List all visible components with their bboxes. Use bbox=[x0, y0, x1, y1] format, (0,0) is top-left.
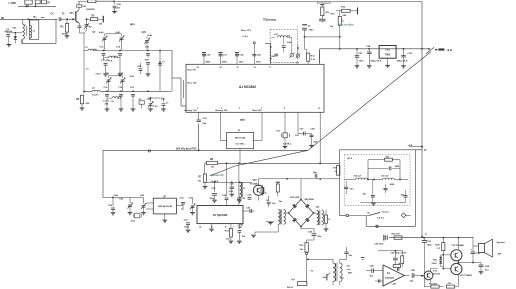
node osc input bbox=[241, 30, 255, 54]
svg-text:ГПД вывод: ГПД вывод bbox=[263, 20, 276, 22]
transistor VT9 bbox=[443, 262, 472, 287]
wire D1 loop bbox=[339, 150, 415, 228]
crystal Q1 bbox=[277, 112, 292, 148]
svg-text:+2,4В: +2,4В bbox=[237, 223, 243, 226]
op-amp A3 bbox=[383, 265, 410, 286]
ground D1 bbox=[360, 203, 406, 206]
svg-text:100н: 100н bbox=[309, 30, 315, 32]
svg-text:С17 470: С17 470 bbox=[101, 59, 110, 62]
transistor VT1 KP327 bbox=[70, 1, 87, 23]
wire oscillator bias bbox=[205, 181, 252, 183]
capacitor C53 bbox=[355, 49, 364, 68]
svg-text:А1 МС3362: А1 МС3362 bbox=[239, 85, 256, 89]
svg-text:Вых. ОГ1: Вых. ОГ1 bbox=[241, 30, 252, 32]
resistor R23 bbox=[424, 283, 443, 288]
capacitor C62 bbox=[422, 238, 432, 288]
svg-text:200µ: 200µ bbox=[210, 198, 215, 200]
wire rail to A1 power pin bbox=[319, 49, 321, 63]
capacitor C17 bbox=[101, 59, 110, 77]
svg-text:VD10: VD10 bbox=[432, 263, 438, 265]
wire row1 to row2 link bbox=[158, 51, 165, 92]
svg-text:10,7 МГц: 10,7 МГц bbox=[235, 144, 245, 146]
wire antenna top bbox=[18, 4, 56, 7]
svg-text:С1Б: С1Б bbox=[117, 4, 122, 6]
capacitor 10n D1 bbox=[344, 181, 354, 194]
resistor X2 bbox=[139, 99, 145, 108]
svg-text:Н100ПМ: Н100ПМ bbox=[86, 9, 95, 11]
resistor R12 and C40 bbox=[225, 223, 246, 243]
svg-text:С5Б: С5Б bbox=[411, 270, 416, 272]
svg-text:560µ×16 В: 560µ×16 В bbox=[371, 59, 382, 62]
capacitor C6 emitter bbox=[76, 22, 89, 92]
wire diagonal to power switch bbox=[308, 52, 431, 151]
regulator VR1 7805 bbox=[379, 46, 396, 68]
svg-text:Настройка: Настройка bbox=[339, 23, 354, 27]
svg-text:+9 В: +9 В bbox=[446, 48, 452, 52]
capacitor C19 bbox=[118, 87, 123, 111]
resistor R19 bbox=[324, 210, 332, 231]
capacitor С38 bbox=[235, 53, 244, 65]
labels C17b bbox=[103, 100, 110, 105]
capacitor C46 trimmer column bbox=[103, 194, 133, 215]
wire filter to A1 bbox=[172, 51, 186, 107]
svg-text:220µ×16 В: 220µ×16 В bbox=[397, 59, 408, 62]
svg-text:1мкГн: 1мкГн bbox=[92, 94, 99, 96]
label tuning green bbox=[339, 23, 354, 27]
capacitor C63 bbox=[471, 237, 481, 264]
capacitor C54 bbox=[366, 45, 382, 68]
svg-text:25н: 25н bbox=[271, 56, 275, 58]
capacitor C58b input bbox=[375, 235, 388, 246]
svg-text:Вывод 100: Вывод 100 bbox=[216, 110, 229, 112]
svg-text:С5Б: С5Б bbox=[370, 266, 375, 268]
capacitor C41 bbox=[248, 193, 253, 199]
trimmer C30 bbox=[189, 197, 196, 215]
capacitor C33 bbox=[197, 112, 208, 125]
wire A3 inverting input bbox=[375, 279, 383, 282]
wire antenna input bbox=[0, 18, 57, 20]
inductor L row2 bbox=[107, 97, 121, 103]
ground near ring bbox=[266, 222, 274, 225]
inductor L1 bbox=[23, 19, 27, 43]
wire bandfilter row2 bbox=[100, 90, 168, 92]
wire bottom rail bbox=[389, 237, 473, 239]
label node 2 bbox=[425, 233, 427, 236]
inductor 100uH right bbox=[367, 176, 408, 181]
resistor R24 bbox=[436, 238, 445, 270]
diodes VD9 VD10 bbox=[432, 255, 444, 267]
resistor R3 top bbox=[79, 0, 115, 11]
resistor R20 bbox=[261, 185, 267, 196]
capacitor C45b bbox=[108, 197, 115, 216]
svg-text:КТ3126: КТ3126 bbox=[433, 273, 441, 275]
svg-text:R23 820: R23 820 bbox=[429, 283, 438, 285]
capacitor C34 C35 A2 inputs bbox=[222, 163, 246, 205]
capacitor C32b bbox=[184, 220, 191, 233]
svg-text:КТ342Б: КТ342Б bbox=[250, 183, 258, 186]
resistor R25 bbox=[447, 282, 459, 288]
svg-text:1к: 1к bbox=[265, 193, 267, 195]
svg-text:Приём Rx: Приём Rx bbox=[211, 173, 225, 177]
svg-text:Вывод 1,5к: Вывод 1,5к bbox=[185, 110, 198, 112]
svg-text:1,4 кГц: 1,4 кГц bbox=[377, 217, 385, 220]
label L-CM6 bbox=[9, 2, 17, 5]
svg-text:7805: 7805 bbox=[385, 53, 391, 56]
label dpo bbox=[130, 23, 135, 26]
wire +9V horizontal rail bbox=[320, 48, 430, 50]
crystal Q2 500k bbox=[131, 213, 141, 222]
trimmer C8 bbox=[105, 31, 125, 50]
box D1 dashed bbox=[344, 154, 410, 205]
inductor L5 bbox=[237, 182, 246, 202]
capacitor 2600 bbox=[384, 184, 396, 193]
trimmer C28 bbox=[147, 97, 161, 111]
capacitor C57 bbox=[397, 49, 414, 68]
resistor R1 bbox=[61, 19, 70, 38]
svg-text:500µ: 500µ bbox=[427, 245, 432, 247]
resistor R4 bbox=[76, 87, 100, 111]
wire C33 drop bbox=[198, 124, 200, 152]
svg-text:Д1.4: Д1.4 bbox=[348, 157, 353, 160]
trimmer C13 bbox=[109, 76, 126, 92]
svg-text:4-40: 4-40 bbox=[99, 31, 104, 34]
svg-text:А1 вывод 23: А1 вывод 23 bbox=[317, 1, 331, 4]
transistor VT4 bbox=[422, 268, 441, 283]
filter Z1 FP1P bbox=[220, 112, 262, 163]
capacitor 3900 bbox=[368, 166, 400, 170]
svg-text:400н: 400н bbox=[222, 61, 228, 64]
svg-text:5 кГц: 5 кГц bbox=[243, 36, 249, 38]
label GPD bbox=[263, 20, 276, 22]
svg-text:ДБ: ДБ bbox=[26, 5, 30, 8]
svg-text:VR1: VR1 bbox=[385, 48, 390, 51]
resistor R13 with Tbar bbox=[276, 182, 280, 196]
label KD503A bbox=[5, 30, 13, 33]
trimmer R2 bbox=[84, 18, 93, 33]
svg-text:Р-50: Р-50 bbox=[153, 106, 158, 108]
switch SA1 power bbox=[426, 47, 452, 53]
label RX green bbox=[211, 173, 225, 177]
inductor 100uH left bbox=[344, 176, 374, 180]
capacitor C55 to A3 bbox=[366, 266, 383, 278]
capacitor C1 C3 top bbox=[35, 0, 50, 4]
svg-text:3,4 кГц: 3,4 кГц bbox=[382, 211, 390, 214]
svg-text:+6В: +6В bbox=[392, 284, 396, 286]
trimmer C48e before EMF bbox=[130, 194, 146, 215]
svg-text:100н: 100н bbox=[359, 60, 365, 62]
svg-text:С20: С20 bbox=[142, 32, 147, 34]
speaker BA1 bbox=[473, 239, 505, 257]
diode VD1 bbox=[12, 28, 17, 44]
svg-text:Вых 100: Вых 100 bbox=[188, 83, 198, 85]
svg-text:С58 100µ ×10 В: С58 100µ ×10 В bbox=[391, 252, 407, 255]
capacitor on detector line bbox=[313, 171, 317, 179]
svg-text:1000: 1000 bbox=[184, 227, 190, 229]
capacitor C56 tuning filter bbox=[302, 24, 340, 49]
svg-text:VT8 ГТ404Б: VT8 ГТ404Б bbox=[451, 244, 464, 247]
svg-text:*120: *120 bbox=[119, 198, 124, 200]
resistor R14 bbox=[317, 1, 331, 22]
wire left IF drop bbox=[102, 150, 104, 197]
svg-text:100н: 100н bbox=[239, 62, 245, 64]
op-amp U A1 MC3362 bbox=[186, 64, 324, 112]
capacitor C50 bbox=[344, 247, 352, 259]
svg-text:2-НЧ: 2-НЧ bbox=[96, 74, 102, 76]
capacitor C43 base bbox=[243, 206, 255, 213]
wire D1 top rail bbox=[339, 145, 427, 152]
inductor L3 bbox=[84, 47, 100, 51]
transformer Tr2 bbox=[316, 206, 324, 225]
wire IF output run bbox=[103, 149, 308, 151]
jack XS1 bottom bbox=[287, 279, 307, 289]
svg-text:L-СМ6: L-СМ6 bbox=[9, 2, 17, 5]
capacitor C14 bbox=[116, 45, 122, 76]
transistor VT bottom bbox=[323, 273, 331, 281]
svg-text:4-40: 4-40 bbox=[148, 34, 153, 37]
resistor R11 bbox=[306, 49, 315, 64]
capacitor 15n D1 bbox=[401, 190, 408, 203]
resistor R5 bbox=[87, 15, 104, 25]
filter EMF bbox=[146, 196, 176, 223]
wire input tap bbox=[7, 32, 23, 34]
wire top supply rail bbox=[114, 1, 422, 3]
resistor R22 bbox=[392, 233, 403, 239]
svg-text:Вых 500: Вых 500 bbox=[253, 110, 263, 112]
wire right +9V vertical bbox=[421, 2, 423, 238]
svg-text:4-50: 4-50 bbox=[130, 75, 135, 78]
labels A1 pins bbox=[185, 67, 322, 112]
svg-text:10н: 10н bbox=[272, 203, 276, 205]
label VCH arrow bbox=[34, 17, 45, 19]
wire A1 pin17 feed bbox=[265, 44, 272, 65]
svg-text:R22 100: R22 100 bbox=[392, 233, 401, 235]
wire output node bbox=[459, 262, 474, 264]
capacitor C26b bbox=[137, 63, 142, 74]
inductor L2 with shield bbox=[26, 19, 39, 39]
svg-text:К140УД1Б: К140УД1Б bbox=[385, 276, 395, 279]
capacitor C24 bbox=[176, 196, 185, 211]
oscillator tank L10 dashed box bbox=[270, 30, 298, 63]
ground A2 pin bbox=[209, 224, 214, 232]
capacitor C37b bbox=[266, 196, 277, 207]
svg-text:КДС523В: КДС523В bbox=[305, 199, 315, 201]
wire bandfilter row1 bbox=[100, 50, 172, 52]
capacitor 30k D1 bbox=[363, 180, 375, 203]
resistor top corner bbox=[25, 0, 32, 8]
svg-text:+ С57: + С57 bbox=[407, 53, 414, 55]
label IF out bbox=[176, 147, 197, 150]
varicap VD4 bbox=[296, 44, 301, 65]
capacitor С36 bbox=[202, 53, 211, 65]
svg-text:ФП1П-049: ФП1П-049 bbox=[235, 137, 246, 140]
capacitor C58 bbox=[378, 250, 406, 265]
transformer Tr1 bbox=[251, 201, 285, 238]
resistor R26 bbox=[401, 251, 404, 267]
labels row2 trimmers bbox=[96, 74, 135, 79]
resistor R27 feedback bbox=[393, 263, 401, 271]
capacitor C2 with ground bbox=[6, 29, 11, 47]
inductor L row1 bbox=[104, 56, 121, 62]
node IF test point bbox=[148, 150, 150, 152]
svg-text:Вых ПЧ: Вых ПЧ bbox=[188, 70, 197, 72]
capacitor C16f bbox=[104, 87, 110, 111]
transistor VT2 bbox=[250, 180, 264, 201]
svg-text:С2Б: С2Б bbox=[137, 66, 142, 68]
svg-text:2600: 2600 bbox=[390, 184, 396, 186]
svg-text:дпо: дпо bbox=[130, 23, 135, 26]
svg-text:Speaker: Speaker bbox=[497, 242, 506, 244]
capacitor С37 bbox=[218, 53, 227, 65]
capacitor C38m bbox=[210, 182, 217, 202]
ground small mid bbox=[361, 258, 364, 260]
wire row2 out bbox=[168, 78, 172, 91]
svg-text:100 мкГ: 100 мкГ bbox=[354, 176, 363, 178]
svg-text:VD5-VD8: VD5-VD8 bbox=[290, 197, 300, 199]
switch S2 bandwidth bbox=[346, 211, 411, 220]
capacitor C10 bbox=[100, 46, 106, 60]
svg-text:3900: 3900 bbox=[395, 166, 401, 168]
svg-text:А2 ТДА1083: А2 ТДА1083 bbox=[213, 214, 228, 217]
capacitor C21 bbox=[130, 87, 135, 111]
resistor R16 bbox=[336, 7, 358, 18]
svg-text:С58 100к: С58 100к bbox=[375, 243, 385, 245]
op-amp U A2 bbox=[197, 206, 243, 229]
resistor R8 bbox=[205, 159, 218, 174]
wire VT2 collector bbox=[259, 178, 340, 186]
resistor R17 bbox=[333, 166, 340, 176]
wire detector feed bbox=[218, 162, 339, 164]
svg-text:С17 3: С17 3 bbox=[103, 100, 110, 102]
capacitor C4 bbox=[51, 13, 76, 22]
svg-text:С.Л: С.Л bbox=[437, 248, 441, 250]
trimmer C7 bbox=[93, 31, 108, 50]
svg-text:VT9 ГТ402Б: VT9 ГТ402Б bbox=[460, 274, 473, 277]
svg-text:ВР: ВР bbox=[498, 253, 502, 255]
capacitor C31 bbox=[160, 98, 169, 111]
capacitor C48b bbox=[309, 128, 318, 148]
svg-text:КД503А: КД503А bbox=[5, 30, 13, 33]
svg-text:100 мкГ: 100 мкГ bbox=[381, 176, 390, 178]
svg-text:VT1: VT1 bbox=[70, 13, 75, 15]
label antenna bbox=[1, 18, 5, 20]
transformer T1 bottom bbox=[307, 258, 353, 285]
svg-text:400н: 400н bbox=[206, 61, 212, 64]
capacitor C64 bbox=[473, 263, 490, 275]
trimmer C9 bbox=[106, 76, 111, 91]
capacitor C39 electrolytic bbox=[229, 182, 235, 196]
svg-text:100н: 100н bbox=[256, 62, 262, 64]
capacitor C23 C26 bbox=[145, 46, 150, 76]
wire A1 pin10 drop bbox=[319, 112, 321, 163]
wire diagonal RX control bbox=[210, 150, 308, 176]
svg-text:470М: 470М bbox=[62, 33, 68, 36]
svg-text:5,5 МГц: 5,5 МГц bbox=[283, 143, 292, 145]
svg-text:С4Б: С4Б bbox=[114, 194, 119, 197]
svg-text:500 кГц вых ПЧ2: 500 кГц вых ПЧ2 bbox=[176, 147, 197, 150]
resistor R21 bbox=[300, 240, 315, 284]
transistor VT8 bbox=[443, 237, 464, 263]
capacitor C47b bbox=[295, 112, 312, 137]
resistor 20k feedback bbox=[368, 156, 400, 179]
wire AGC return bbox=[22, 19, 56, 43]
capacitor C49 bbox=[301, 227, 322, 241]
capacitor C66 bbox=[410, 270, 425, 283]
svg-text:VT2: VT2 bbox=[253, 180, 258, 182]
potentiometer R15 bbox=[330, 11, 344, 50]
capacitor C16 bypass bbox=[112, 3, 121, 14]
capacitor С42 bbox=[252, 53, 261, 65]
svg-text:С13: С13 bbox=[119, 74, 124, 76]
pin A1 NC tick bbox=[240, 119, 245, 121]
svg-text:ЭМФ-9Д-500-3В: ЭМФ-9Д-500-3В bbox=[158, 205, 173, 208]
resistor R7 bbox=[198, 174, 219, 189]
svg-text:10н: 10н bbox=[350, 188, 354, 190]
trimmer C20 bbox=[142, 32, 153, 50]
diode ring VD5-VD8 bbox=[285, 179, 317, 228]
